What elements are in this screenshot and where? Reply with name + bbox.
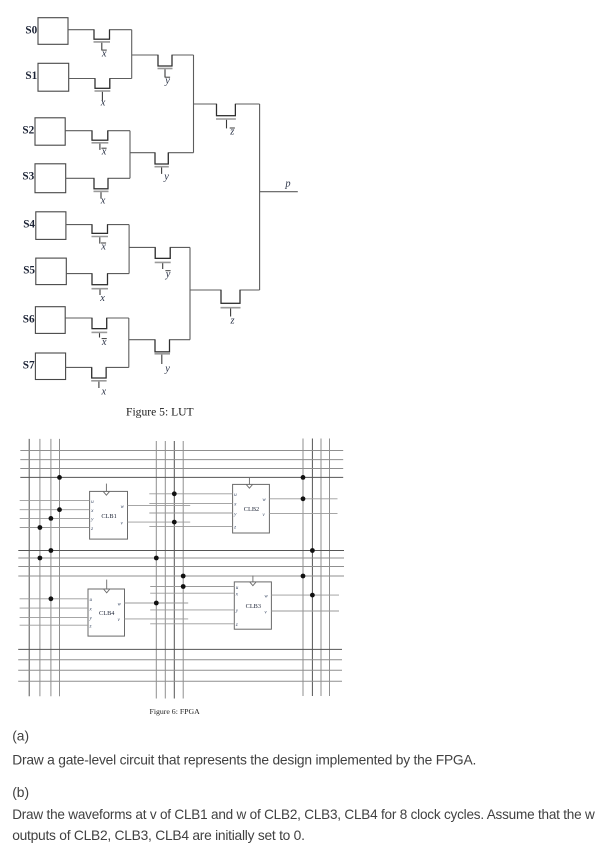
gate of pass transistor T14 <box>221 308 241 327</box>
node: S2/S3 merge vertical <box>129 131 131 179</box>
svg-text:y: y <box>164 363 170 374</box>
gate of pass transistor T7 <box>216 119 236 137</box>
svg-text:u: u <box>236 585 239 591</box>
svg-text:Figure 6: FPGA: Figure 6: FPGA <box>150 707 201 716</box>
svg-text:x: x <box>100 98 106 109</box>
svg-text:w: w <box>264 593 268 599</box>
svg-text:x: x <box>100 195 106 206</box>
gate of pass transistor T3 <box>158 69 173 87</box>
memory cell S1 <box>25 63 68 91</box>
memory cell S3 <box>22 164 65 193</box>
junction: middle bus track1 / left track3 <box>49 548 54 553</box>
wire: S6 row wire + pass transistor (x̄) <box>65 318 129 329</box>
svg-text:x: x <box>99 293 105 304</box>
svg-text:S3: S3 <box>22 170 34 182</box>
svg-text:z: z <box>233 525 236 531</box>
svg-text:z: z <box>229 126 234 137</box>
svg-text:Draw the waveforms at v of CLB: Draw the waveforms at v of CLB1 and w of… <box>12 807 595 822</box>
memory cell S5 <box>23 258 66 285</box>
junction: middle bus track4 / middle track4 <box>181 574 186 579</box>
node: upper ȳ/y merge vertical <box>193 55 195 153</box>
svg-text:w: w <box>262 497 266 503</box>
svg-text:y: y <box>163 172 169 183</box>
memory cell S6 <box>23 307 65 334</box>
junction: CLB2 u pin / middle track3 <box>172 491 177 496</box>
svg-text:p: p <box>284 179 290 190</box>
gate of pass transistor T5 <box>155 167 170 183</box>
FPGA routing: middle horizontal bus (4 tracks) <box>18 551 344 577</box>
svg-text:z: z <box>235 622 238 628</box>
svg-text:u: u <box>91 499 94 505</box>
junction: CLB4 w pin / middle track1 <box>154 601 159 606</box>
junction: middle bus track2 / middle track1 <box>154 556 159 561</box>
memory cell S2 <box>22 118 65 145</box>
gate of pass transistor T13 <box>155 354 171 375</box>
svg-text:u: u <box>90 597 93 603</box>
gate of pass transistor T10 <box>155 262 171 280</box>
CLB4 input pin wires u,x,y,z <box>20 597 93 629</box>
junction: CLB2 w pin / right track1 <box>301 496 306 501</box>
gate of pass transistor T4 <box>92 143 109 158</box>
svg-text:Figure 5: LUT: Figure 5: LUT <box>126 405 194 418</box>
wire: level-3 pass transistor T14 (z) row <box>190 290 260 303</box>
CLB3 block <box>234 576 271 630</box>
node: S0/S1 merge vertical <box>131 30 133 79</box>
svg-text:CLB2: CLB2 <box>244 506 259 513</box>
svg-text:(a): (a) <box>12 728 29 743</box>
CLB2 block <box>233 478 270 533</box>
junction: CLB3 u pin / middle track4 <box>181 584 186 589</box>
wire: level-2 pass transistor T3 (ȳ) row <box>132 55 194 66</box>
gate of pass transistor T6 <box>94 191 109 206</box>
svg-text:x: x <box>101 147 107 158</box>
CLB3 input pin wires u,x,y,z <box>150 585 239 628</box>
gate of pass transistor T12 <box>91 381 106 398</box>
svg-text:S0: S0 <box>25 24 37 36</box>
svg-text:Draw a gate-level circuit that: Draw a gate-level circuit that represent… <box>12 753 476 768</box>
FPGA routing: bottom horizontal bus (4 tracks) <box>18 649 342 681</box>
gate of pass transistor T11 <box>92 332 108 348</box>
svg-text:S7: S7 <box>23 360 35 372</box>
wire: S1 row wire + pass transistor (x) <box>69 79 132 89</box>
wire: level-3 pass transistor T7 (z̄) row <box>194 104 260 116</box>
wire: S7 row wire + pass transistor (x) <box>66 367 129 378</box>
node: lower ȳ/y merge vertical <box>189 247 191 339</box>
CLB2 output pin wires w,v <box>262 497 337 518</box>
svg-text:x: x <box>100 386 106 397</box>
wire: level-2 pass transistor T10 (ȳ) row <box>129 247 190 258</box>
CLB2 input pin wires u,x,y,z <box>149 492 237 531</box>
gate of pass transistor T9 <box>92 289 109 304</box>
svg-text:w: w <box>121 504 125 510</box>
junction: CLB3 w pin / right track2 <box>310 593 315 598</box>
node: output merge vertical <box>259 104 261 290</box>
junction: middle bus track4 / right track1 <box>301 574 306 579</box>
svg-text:z: z <box>229 315 234 326</box>
caption Figure 6 <box>150 707 201 716</box>
svg-text:(b): (b) <box>12 785 29 800</box>
question text <box>12 728 595 843</box>
memory cell S4 <box>23 212 66 240</box>
svg-text:CLB3: CLB3 <box>246 603 261 610</box>
wire: output p <box>260 179 298 192</box>
svg-text:CLB1: CLB1 <box>101 513 116 520</box>
memory cell S0 <box>25 18 68 45</box>
svg-text:S6: S6 <box>23 313 35 325</box>
svg-text:w: w <box>118 601 122 607</box>
svg-text:u: u <box>234 492 237 498</box>
svg-text:x: x <box>101 48 107 59</box>
FPGA routing: left vertical bus (4 tracks) <box>29 439 59 696</box>
caption Figure 5 <box>126 405 194 418</box>
gate of pass transistor T8 <box>92 237 109 253</box>
CLB1 input pin wires u,x,y,z <box>20 499 94 532</box>
gate of pass transistor T1 <box>94 42 111 60</box>
wire: S2 row wire + pass transistor (x̄) <box>65 131 130 141</box>
wire: S5 row wire + pass transistor (x) <box>66 274 129 285</box>
wire: S0 row wire + pass transistor (x̄) <box>68 30 132 40</box>
junction: CLB1 z pin / left track2 <box>38 525 43 530</box>
FPGA routing: top horizontal bus (4 tracks) <box>20 451 343 478</box>
CLB1 block <box>90 484 128 539</box>
wire: level-2 pass transistor T13 (y) row <box>129 340 190 352</box>
svg-text:CLB4: CLB4 <box>99 610 115 617</box>
junction: CLB1 v pin / middle track3 <box>172 520 177 525</box>
FPGA routing: middle vertical bus (4 tracks) <box>156 441 183 699</box>
CLB1 output pin wires w,v <box>121 504 191 527</box>
memory cell S7 <box>23 353 66 380</box>
wire: S3 row wire + pass transistor (x) <box>66 178 130 189</box>
svg-text:z: z <box>90 526 93 532</box>
junction: middle bus track2 / left track2 <box>38 556 43 561</box>
gate of pass transistor T2 <box>95 91 111 109</box>
FPGA routing: right vertical bus (4 tracks) <box>303 439 330 697</box>
node: S4/S5 merge vertical <box>128 225 130 274</box>
CLB3 output pin wires w,v <box>264 593 339 615</box>
svg-text:S1: S1 <box>25 70 37 82</box>
svg-text:outputs of CLB2, CLB3, CLB4 ar: outputs of CLB2, CLB3, CLB4 are initiall… <box>12 828 304 843</box>
junction: middle bus track1 / right track2 <box>310 548 315 553</box>
svg-text:x: x <box>101 337 107 348</box>
junction: CLB1 y pin / left track3 <box>49 516 54 521</box>
junction: CLB4 u pin / left track3 <box>49 596 54 601</box>
svg-text:S2: S2 <box>22 124 34 136</box>
wire: level-2 pass transistor T5 (y) row <box>130 153 194 164</box>
svg-text:z: z <box>89 624 92 630</box>
svg-text:S4: S4 <box>23 218 35 230</box>
svg-text:y: y <box>164 76 170 87</box>
CLB4 output pin wires w,v <box>118 601 189 623</box>
junction: CLB1 x pin / left track4 <box>57 507 62 512</box>
svg-text:y: y <box>165 269 171 280</box>
junction: top bus track4 / left track4 <box>57 475 62 480</box>
wire: S4 row wire + pass transistor (x̄) <box>66 225 129 234</box>
svg-text:x: x <box>100 241 106 252</box>
node: S6/S7 merge vertical <box>128 318 130 367</box>
svg-text:S5: S5 <box>23 265 35 277</box>
junction: top bus track4 / right track1 <box>301 475 306 480</box>
CLB4 block <box>88 580 125 637</box>
